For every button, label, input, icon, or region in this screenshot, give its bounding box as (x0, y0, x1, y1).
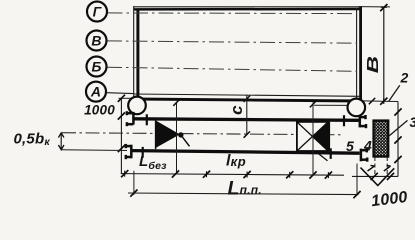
left bottom edge extension (119, 97, 135, 99)
box tail line (317, 153, 328, 161)
svg-text:В: В (364, 56, 381, 74)
svg-text:Б: Б (91, 59, 101, 75)
svg-text:с: с (227, 105, 246, 115)
tick top of box extension (310, 101, 316, 107)
svg-text:1000: 1000 (84, 103, 115, 118)
tick top of triangle extension (173, 99, 179, 105)
tick top of c (244, 96, 250, 102)
tick bottom right line 2 (387, 173, 394, 180)
tick Lпп left (130, 190, 137, 197)
arrow mark left (368, 165, 375, 171)
V grounding mark (361, 168, 395, 186)
svg-text:lкр: lкр (226, 153, 246, 170)
building top wall thin line (134, 6, 361, 8)
svg-text:1000: 1000 (370, 189, 408, 209)
end stop upper-left (127, 111, 134, 126)
end stop lower-right (361, 148, 368, 162)
arrow mark right (384, 165, 391, 171)
rail end tick bottom-right (330, 148, 332, 159)
crossed box crane position (297, 122, 328, 151)
right vertical line (397, 102, 399, 177)
grid circle Б (87, 57, 107, 77)
extension through box (312, 102, 314, 175)
triangle apex dot (178, 132, 183, 137)
bottom right dimension line (352, 175, 398, 177)
crane position triangle base line (155, 119, 157, 149)
svg-text:5: 5 (346, 138, 354, 154)
left dimension column line (120, 98, 122, 174)
end stop lower-left (125, 144, 131, 159)
dimension В top extension (359, 6, 391, 8)
building bottom wall thick line (134, 99, 360, 101)
dimension В bottom extension (362, 100, 398, 103)
leader for 2 (389, 85, 400, 101)
tick right column 1 (394, 108, 401, 115)
crane travel axis dash-dot (62, 133, 342, 135)
grid circle В (87, 31, 107, 51)
tick mid bottom extension (369, 98, 375, 104)
svg-text:Г: Г (93, 4, 103, 20)
tick on main dim line x=124.7 (121, 170, 128, 177)
tick left col 2 (118, 112, 125, 119)
crane circle right (348, 99, 366, 117)
rail end tick top-right (343, 115, 345, 126)
tick bottom of c (244, 131, 250, 137)
tick top of В (380, 4, 387, 11)
svg-text:4: 4 (363, 138, 372, 154)
extension below hatched rect left (374, 157, 376, 176)
svg-text:3: 3 (410, 114, 415, 130)
label В rotated (364, 56, 381, 74)
tick on main dim line x=289.7 (286, 171, 293, 178)
tick bottom of В (380, 98, 387, 105)
axis В line (107, 41, 357, 43)
grid circle Г (87, 2, 107, 22)
tick on main dim line x=175.5 (172, 170, 179, 177)
tick right column 3 (394, 156, 401, 163)
end stop upper-right (360, 115, 367, 128)
axis А leader line (107, 92, 135, 95)
tick on main dim line x=247.1 (244, 171, 251, 178)
dimension c line (246, 95, 248, 135)
tick left col 3 (118, 145, 125, 152)
tick right column 2 (394, 136, 401, 143)
tick bottom right line 1 (371, 173, 378, 180)
axis Г line (108, 12, 358, 15)
triangle tail line (181, 135, 190, 146)
tick Lпп right (353, 191, 360, 198)
building left wall thin line (133, 6, 135, 99)
extension below hatched rect right (386, 157, 388, 176)
top crane rail (134, 119, 359, 121)
Lпп dimension line (128, 193, 359, 195)
tick on main dim line x=328.4 (325, 172, 332, 179)
grid circle А (86, 82, 106, 102)
building left wall thick line (136, 9, 139, 100)
bottom rail left extension (61, 149, 128, 152)
bottom crane rail (132, 151, 360, 154)
tick left col 1 (118, 95, 125, 102)
rail end tick bottom-left (142, 147, 144, 158)
main dimension line Lбез + lкр (121, 174, 344, 176)
svg-text:А: А (90, 84, 101, 100)
tick on main dim line x=206.5 (203, 171, 210, 178)
Lпп right extension (356, 164, 358, 195)
svg-text:В: В (91, 33, 101, 49)
tick on main dim line x=313 (309, 171, 316, 178)
crane circle left (128, 97, 146, 115)
building right wall thin line (356, 8, 358, 100)
extension through triangle (176, 102, 178, 174)
svg-text:2: 2 (400, 70, 409, 86)
axis Б line (107, 67, 357, 71)
thin line to right crane circle (314, 104, 348, 106)
Lпп left extension (133, 171, 135, 195)
hatched rectangle ballast/slab (374, 121, 389, 157)
0,5bк dimension line with arrows (60, 133, 62, 150)
building bottom wall thin line (134, 94, 360, 96)
rail end tick top-left (146, 114, 148, 125)
building top wall thick line (134, 8, 361, 11)
leader for 3 (389, 120, 407, 135)
building right wall thick line (359, 6, 362, 101)
crane position filled triangle (156, 121, 180, 148)
dimension В line (383, 7, 385, 101)
